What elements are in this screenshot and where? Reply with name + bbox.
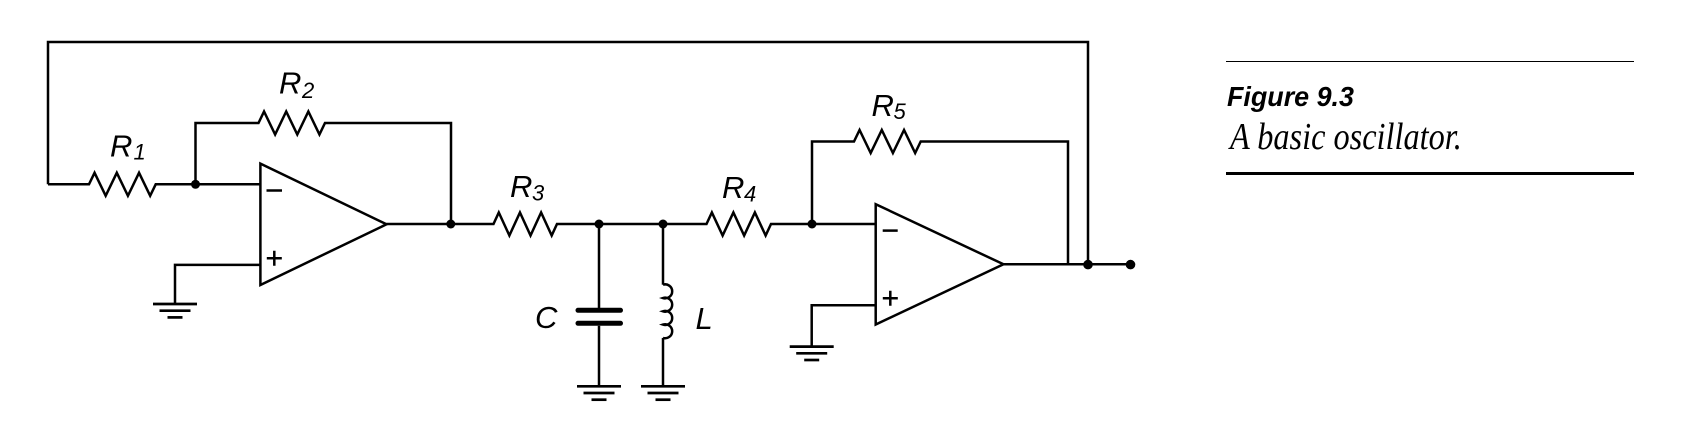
svg-text:C: C [535,300,558,335]
wire: op-amp U2 non-inverting input to ground [812,305,876,346]
svg-text:3: 3 [532,181,545,206]
svg-text:2: 2 [301,78,314,103]
op-amp U1 [260,164,386,285]
node E: output junction (feedback tap) [1083,260,1093,270]
inductor L [663,224,713,386]
svg-text:1: 1 [134,140,146,165]
caption bottom rule [1226,172,1634,175]
ground (op-amp U1 + input) [153,304,197,317]
wire: op-amp U2 output to terminal [1004,263,1131,266]
resistor R1 [48,129,261,196]
caption title: Figure 9.3 [1227,81,1354,113]
ground (op-amp U2 + input) [790,347,834,360]
svg-text:R: R [722,170,744,205]
caption text: A basic oscillator. [1230,115,1462,159]
ground (capacitor C) [577,386,621,399]
op-amp U2 [876,204,1004,324]
ground (inductor L) [641,386,685,399]
svg-text:R: R [510,169,532,204]
wire: top feedback loop from output node up/left/down to R1 input [48,42,1088,264]
resistor R2 (feedback around op-amp U1) [196,66,452,225]
wire: between C node and L node [599,223,663,226]
resistor R4 [663,170,876,236]
node B: op-amp U1 output junction [446,220,455,229]
svg-text:R: R [872,88,894,123]
svg-text:R: R [279,66,301,101]
node C-top: junction to capacitor C [595,220,604,229]
node D: junction R4 / R5 / op-amp U2 inverting input [808,220,817,229]
resistor R5 (feedback around op-amp U2) [812,88,1068,264]
resistor R3 [387,169,600,236]
svg-text:R: R [110,129,132,164]
node L-top: junction to inductor L [659,220,668,229]
svg-text:L: L [696,301,713,336]
capacitor C [535,224,621,386]
caption top rule [1226,61,1634,63]
wire: op-amp U1 non-inverting input to ground [175,265,261,304]
node OUT: output terminal dot [1126,260,1136,270]
node A: junction R1 / R2 / op-amp1 inverting input [191,180,200,189]
svg-text:5: 5 [894,99,907,124]
svg-text:4: 4 [744,182,756,207]
